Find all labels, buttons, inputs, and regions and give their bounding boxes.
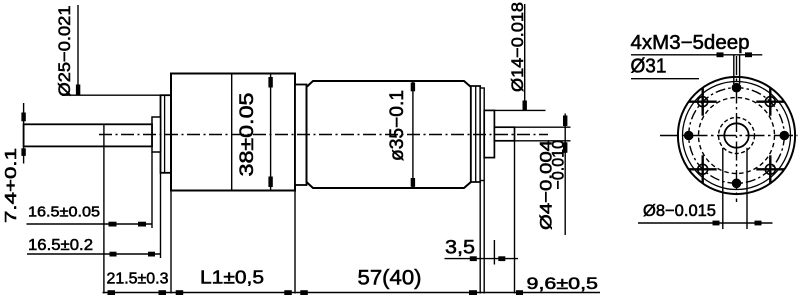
svg-text:3,5: 3,5 — [445, 237, 475, 258]
ø35 dimension line — [412, 82, 414, 188]
arrow L1 right — [284, 290, 292, 295]
svg-text:57(40): 57(40) — [358, 266, 422, 289]
extension line motor rear 2 — [483, 181, 485, 294]
arrow 7.4 top — [21, 113, 25, 122]
arrow L1 left — [176, 290, 184, 295]
arrow Ø38 bottom — [268, 177, 272, 188]
motor rear cap ring 2 — [480, 88, 484, 181]
arrow 9.6 right — [516, 290, 523, 295]
arrow 21.5 right — [159, 290, 167, 295]
dimension line 3.5 — [445, 258, 519, 260]
extension line shaft flat — [103, 146, 105, 293]
svg-text:9,6±0,5: 9,6±0,5 — [527, 275, 599, 293]
dimension line 16.5±0.2 — [27, 253, 161, 255]
svg-text:Ø31: Ø31 — [631, 56, 667, 78]
svg-text:ø35−0.1: ø35−0.1 — [387, 90, 408, 161]
screw dot W — [684, 131, 694, 141]
arrow Ø4 top — [563, 116, 567, 127]
arrow 16.5a right — [138, 222, 146, 227]
face hub circle — [719, 118, 755, 154]
face bolt circle Ø31 — [689, 88, 785, 184]
arrow Ø14 — [523, 101, 527, 111]
rear shaft Ø4 — [494, 127, 514, 141]
extension line rear boss back — [493, 240, 495, 265]
arrow Ø8 left — [713, 221, 720, 226]
arrow 57 left — [300, 290, 308, 295]
svg-text:Ø14−0.018: Ø14−0.018 — [508, 2, 527, 92]
arrow Ø4 bottom — [563, 142, 567, 153]
arrow 3.5 right — [498, 256, 505, 261]
pilot boss inner edge line — [164, 95, 166, 173]
gearbox joint line — [231, 74, 233, 191]
Ø25 leader vertical — [77, 5, 79, 95]
face outer circle Ø38 — [678, 77, 795, 194]
arrow 16.5a left — [109, 222, 117, 227]
svg-text:Ø25−0.021: Ø25−0.021 — [55, 6, 74, 97]
svg-text:L1±0,5: L1±0,5 — [200, 267, 264, 288]
Ø38 dimension line — [270, 74, 272, 190]
extension line boss face — [160, 173, 162, 258]
arrow 16.5b left — [110, 252, 117, 257]
extension line step face — [151, 152, 153, 228]
extension line gearbox front — [170, 191, 172, 294]
svg-text:21.5±0.3: 21.5±0.3 — [107, 270, 169, 287]
motor rear cap ring 1 — [471, 86, 480, 182]
Ø8 dimension line — [638, 222, 773, 224]
arrow M3 right — [745, 52, 752, 57]
shaft flat end line — [103, 124, 105, 146]
extension line gearbox rear — [294, 191, 296, 294]
pilot boss Ø25 — [161, 95, 172, 173]
Ø4 extension line top — [515, 126, 571, 128]
svg-text:Ø8−0.015: Ø8−0.015 — [643, 201, 716, 220]
bearing hub step — [152, 117, 161, 152]
screw dot S — [732, 179, 742, 189]
M3 hole SE — [756, 155, 784, 183]
Ø14 extension line — [494, 109, 545, 111]
Ø8 extension line left — [722, 148, 724, 229]
M3 hole SW — [689, 155, 717, 183]
arrow 16.5b right — [148, 252, 155, 257]
gearbox body Ø38 — [171, 74, 295, 191]
M3 hole NW — [689, 88, 717, 116]
M3 hole NE — [756, 88, 784, 116]
screw dot E — [780, 131, 790, 141]
4xM3 underline — [631, 54, 762, 56]
Ø25 extension line top — [62, 94, 161, 96]
face centerline horizontal — [660, 135, 798, 137]
bottom shared dimension line — [103, 292, 601, 294]
dimension 7.4+0.1 line — [23, 103, 25, 164]
Ø31 underline — [631, 78, 699, 80]
centerline main side view — [99, 134, 548, 136]
motor rear cap mid line — [475, 86, 477, 182]
svg-text:16.5±0.05: 16.5±0.05 — [28, 204, 100, 221]
arrow 7.4 bottom — [21, 148, 25, 156]
dimension line 16.5±0.05 — [27, 223, 153, 225]
svg-text:7.4+0.1: 7.4+0.1 — [3, 148, 20, 223]
Ø4 dimension line — [564, 114, 566, 236]
screw dot N — [732, 83, 742, 93]
Ø14 leader vertical — [524, 4, 526, 110]
svg-text:−0.010: −0.010 — [549, 140, 568, 190]
arrow ø35 top — [411, 83, 415, 92]
face centerline vertical — [736, 56, 738, 202]
arrow Ø8 right — [755, 221, 762, 226]
arrow M3 left — [717, 52, 724, 57]
face shaft circle Ø8 — [724, 123, 748, 147]
arrow Ø38 top — [268, 77, 272, 88]
face pilot circle Ø25 — [699, 98, 775, 174]
Ø4 extension line bottom — [515, 140, 571, 142]
extension line rear shaft end — [514, 141, 516, 294]
arrow ø35 bottom — [411, 178, 415, 187]
output shaft Ø8 — [24, 124, 152, 146]
arrow 21.5 left — [108, 290, 116, 295]
arrow Ø25 — [76, 85, 80, 95]
arrow 57 right — [469, 290, 477, 295]
face motor circle Ø35 — [683, 82, 791, 190]
svg-text:38±0.05: 38±0.05 — [237, 93, 258, 177]
extension line motor rear 1 — [479, 182, 481, 294]
svg-text:4xM3−5deep: 4xM3−5deep — [631, 32, 750, 54]
svg-text:16.5±0.2: 16.5±0.2 — [28, 237, 93, 254]
motor neck ring — [295, 85, 307, 186]
Ø8 extension line right — [746, 148, 748, 229]
arrow 3.5 left — [470, 256, 477, 261]
motor body Ø35 — [307, 81, 471, 188]
M3 leader extension lines — [733, 55, 735, 84]
rear bearing boss Ø14 — [484, 110, 494, 157]
